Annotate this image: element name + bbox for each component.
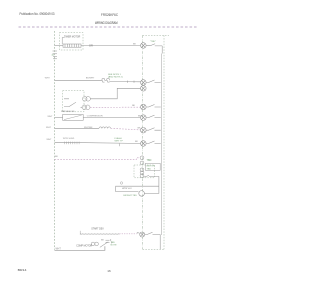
wire evap fan to lamp 3 — [90, 88, 140, 99]
defrost timer dashed box — [60, 33, 84, 51]
tick marks on wire2 — [128, 81, 135, 83]
svg-text:Publication No. 0908049 03: Publication No. 0908049 03 — [20, 12, 55, 16]
svg-text:WHT: WHT — [47, 139, 53, 141]
wire cond fan to lamp 4 (dashed) — [90, 106, 141, 108]
door switch S2 — [146, 80, 161, 83]
svg-text:NATURAL BK: NATURAL BK — [61, 110, 75, 113]
svg-text:WHT: WHT — [48, 116, 54, 118]
door switch S7 — [146, 141, 161, 144]
wire bus to lamp 7 — [55, 142, 141, 143]
junction stub below wire7 — [118, 144, 120, 147]
svg-text:COMPRESSOR: COMPRESSOR — [87, 116, 103, 118]
timer motor element (hatched bar) — [63, 44, 81, 47]
svg-text:TBD: TBD — [147, 168, 152, 170]
header dashed separator rule — [19, 26, 199, 28]
lamp L5 — [141, 115, 147, 121]
condenser fan motor M2 — [81, 105, 90, 110]
control dashed box — [63, 91, 84, 112]
wire connector to lamp 2 — [109, 81, 140, 83]
wire solenoid right — [144, 186, 159, 193]
svg-text:TBD: TBD — [147, 159, 152, 162]
svg-text:WHT: WHT — [56, 248, 62, 250]
wire bus to connector — [55, 79, 103, 81]
refrigerator door dashed enclosure — [143, 34, 169, 36]
svg-text:WTR SLR/L: WTR SLR/L — [63, 138, 75, 140]
diagonal inside thermostat box — [64, 115, 82, 119]
bottom bus wire to compressor — [55, 246, 105, 250]
svg-text:WHT: WHT — [46, 127, 52, 129]
small junction circle — [120, 182, 122, 184]
lamp L4 — [141, 104, 147, 110]
svg-text:COMP MOTOR: COMP MOTOR — [76, 245, 92, 247]
wire bus to timer motor — [55, 45, 64, 47]
freezer door switch S8 — [145, 232, 161, 249]
defrost thermostat box — [63, 115, 84, 121]
svg-text:WHT/BK: WHT/BK — [84, 127, 93, 129]
door switch S5 — [146, 115, 161, 118]
svg-text:NOTE: NOTE — [111, 244, 118, 246]
wire to freezer lamp (dotted) — [119, 233, 136, 235]
ice maker switch — [144, 176, 159, 187]
ice maker connector pins — [140, 156, 144, 178]
left neutral bus (dashed vertical) — [54, 31, 56, 250]
lamp L1 — [141, 43, 147, 49]
connector marks near overload — [106, 239, 112, 243]
svg-text:WHT TP: WHT TP — [115, 140, 124, 142]
door center dash-dot line — [142, 35, 144, 249]
wire heater to lamp 6 (dashed) — [111, 128, 141, 130]
water valve bracket top — [116, 186, 159, 191]
connector on bus y56 — [53, 51, 58, 59]
lamp L6 — [141, 127, 147, 133]
inline connector (square bumps) — [102, 79, 110, 82]
lamp L7 — [141, 141, 147, 147]
svg-text:WHT: WHT — [45, 77, 51, 79]
door switch S6 — [146, 128, 161, 131]
start device zigzag element — [80, 231, 119, 235]
wire bus to heater — [55, 127, 100, 129]
svg-text:OR: OR — [89, 44, 93, 47]
compressor motor windings — [91, 242, 98, 246]
switch return vertical wire — [160, 54, 162, 236]
water valve solenoid — [139, 191, 145, 197]
svg-text:WTR VLV: WTR VLV — [122, 188, 132, 190]
svg-text:(AND NOTE 2): (AND NOTE 2) — [108, 75, 123, 78]
ice maker label box — [145, 163, 160, 170]
svg-text:MOTOR: MOTOR — [147, 166, 156, 168]
svg-text:TIMER MOTOR: TIMER MOTOR — [64, 36, 81, 38]
svg-text:BK/WHT TBD: BK/WHT TBD — [123, 195, 137, 197]
defrost heater coil — [99, 127, 111, 128]
freezer lamp L8 — [140, 232, 145, 237]
wire thermostat to lamp 5 — [83, 116, 140, 118]
switch inside control box — [64, 99, 76, 107]
timer internal wire — [62, 38, 64, 45]
svg-text:WIRING DIAGRAM: WIRING DIAGRAM — [95, 21, 118, 25]
wire bus to defrost thermostat — [55, 116, 63, 118]
svg-text:FRS26KF6C: FRS26KF6C — [101, 13, 118, 17]
door switch S4 — [146, 105, 161, 108]
wire timer motor to lamp 1 — [81, 45, 141, 47]
door switch S1 — [146, 44, 162, 54]
wire bus to ice maker (dashed) — [55, 158, 141, 160]
mullion heater hatch ticks — [64, 142, 79, 145]
evaporator fan motor M1 — [82, 97, 90, 102]
lamp L3 — [141, 86, 147, 92]
svg-text:START DEV: START DEV — [91, 228, 104, 231]
svg-text:16: 16 — [107, 269, 111, 273]
ice maker dashed box — [134, 165, 155, 178]
overload switch diagonal — [100, 242, 108, 248]
lamp L2 — [141, 80, 147, 86]
svg-text:BR14: BR14 — [18, 268, 27, 272]
svg-text:BK/WHT: BK/WHT — [86, 77, 95, 79]
svg-text:*TBD*: *TBD* — [150, 41, 156, 43]
